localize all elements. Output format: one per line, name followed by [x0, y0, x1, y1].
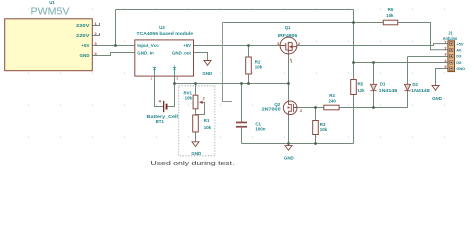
svg-text:240: 240: [329, 98, 337, 103]
svg-text:10k: 10k: [204, 125, 212, 130]
svg-text:R6: R6: [388, 7, 394, 12]
svg-text:+5V: +5V: [456, 41, 464, 46]
svg-text:10k: 10k: [320, 127, 328, 132]
svg-text:TCA4056 based module: TCA4056 based module: [137, 31, 194, 36]
svg-text:J1: J1: [448, 31, 453, 36]
svg-text:220V: 220V: [76, 33, 90, 38]
svg-text:Used only during test.: Used only during test.: [151, 161, 235, 167]
svg-text:2: 2: [298, 42, 300, 46]
svg-text:D9: D9: [456, 54, 462, 59]
svg-text:A0: A0: [456, 48, 462, 53]
svg-text:10k: 10k: [185, 95, 193, 100]
svg-text:3: 3: [277, 42, 279, 46]
svg-text:10k: 10k: [255, 65, 263, 70]
svg-text:Input_Vcc: Input_Vcc: [137, 43, 159, 48]
svg-text:GND_out: GND_out: [172, 50, 192, 55]
svg-text:2: 2: [300, 109, 302, 113]
svg-text:GND_in: GND_in: [137, 50, 154, 55]
svg-text:GND: GND: [432, 96, 442, 101]
svg-text:GND: GND: [202, 71, 212, 76]
svg-text:100n: 100n: [255, 127, 265, 132]
svg-text:+5V: +5V: [183, 43, 191, 48]
svg-text:2N7000: 2N7000: [262, 107, 282, 112]
svg-text:GND: GND: [80, 53, 91, 58]
svg-text:U2: U2: [159, 25, 165, 30]
svg-text:1N4148: 1N4148: [379, 88, 398, 93]
svg-text:R5: R5: [358, 81, 364, 86]
svg-text:10k: 10k: [386, 13, 394, 18]
svg-text:IRF4905: IRF4905: [278, 33, 298, 38]
svg-text:D2: D2: [412, 82, 418, 87]
svg-text:Q1: Q1: [285, 25, 291, 30]
svg-text:U1: U1: [49, 0, 55, 5]
svg-text:12k: 12k: [357, 88, 365, 93]
svg-text:1N4148: 1N4148: [411, 88, 430, 93]
svg-text:220V: 220V: [76, 23, 90, 28]
svg-text:GND: GND: [284, 155, 294, 160]
svg-text:PWM5V: PWM5V: [31, 6, 70, 17]
svg-text:BT1: BT1: [156, 119, 165, 124]
svg-text:GND: GND: [456, 66, 465, 71]
svg-text:R1: R1: [204, 118, 210, 123]
svg-text:D1: D1: [380, 82, 386, 87]
svg-text:D8: D8: [456, 60, 462, 65]
svg-text:+5V: +5V: [81, 43, 89, 48]
